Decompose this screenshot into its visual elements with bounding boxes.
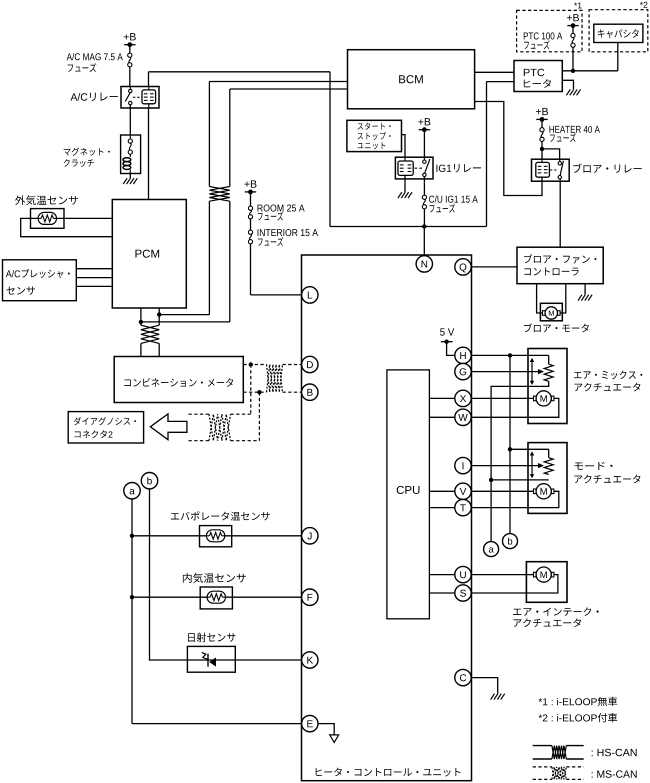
wire to terminal L [250, 244, 252, 295]
IG1 power rail wire [330, 226, 487, 228]
node +B (HEATER fuse supply) [536, 108, 548, 115]
diagnosis connector 2 (ダイアグノシス・コネクタ2) [68, 412, 143, 443]
terminal L [302, 287, 318, 303]
wires controller to blower motor [537, 284, 545, 313]
sensor: outside air temp (外気温センサ) [15, 195, 78, 205]
legend HS-CAN symbol [533, 745, 552, 747]
terminal W [455, 409, 471, 425]
wire [572, 47, 574, 71]
node +B (IG1 relay supply) [418, 118, 430, 125]
photodiode (sunload) [207, 654, 209, 667]
wire intake motor return to terminal S [471, 575, 558, 593]
wire [423, 130, 425, 158]
wires A/C pressure sensor to PCM [76, 268, 112, 270]
node b (left) [141, 473, 157, 489]
ground (magnet clutch) [129, 174, 131, 179]
magnet clutch (with thermal fuse and coil) [121, 135, 141, 174]
ground (terminal E, signal) [318, 724, 334, 735]
sensor: sunload (日射センサ) [188, 632, 235, 642]
dashed option box *2 (capacitor, i-ELOOP付) [589, 10, 648, 52]
wire blower relay coil to BCM [475, 102, 542, 196]
wire a to cabin sensor to terminal F [132, 596, 302, 598]
node +B (PTC fuse supply) [567, 14, 579, 21]
MS-CAN dashed pair to diagnosis connector [250, 365, 252, 415]
MS-CAN dashed pair meter to D/B [243, 364, 266, 366]
terminal I [455, 457, 471, 473]
blower motor (ブロア・モータ) [540, 303, 562, 321]
arrow to diagnosis connector 2 [150, 414, 187, 440]
node a (left) [124, 483, 140, 499]
terminal H [455, 347, 471, 363]
dashed option box *1 (PTC fuse, i-ELOOP无) [517, 10, 582, 51]
wire a to evaporator sensor to terminal J [132, 535, 302, 537]
wire mode motor return to terminal T [471, 491, 559, 507]
wire air mix motor return to terminal W [471, 398, 559, 417]
BCM [348, 50, 475, 109]
terminal C [455, 669, 471, 685]
terminal K [302, 652, 318, 668]
terminal F [302, 589, 318, 605]
twist symbol (MS-CAN, dashed) [267, 365, 283, 393]
wire mode pot return [491, 479, 549, 481]
wire to BCM CAN-L [141, 321, 230, 323]
wire + ground (terminal C) [471, 678, 498, 694]
wire BCM to PTC heater [475, 71, 514, 73]
terminal S [455, 585, 471, 601]
wire terminal Q to controller [471, 266, 517, 268]
wire [21, 218, 113, 236]
wire terminal G to air mix pot wiper [471, 371, 538, 373]
node +B (ROOM/INTERIOR fuse supply) [244, 180, 256, 187]
wires CPU to terminals [429, 397, 454, 399]
wire fuse to blower relay switch [542, 149, 560, 159]
sensor: A/C pressure (A/Cプレッシャ・センサ) [3, 260, 77, 301]
terminal T [455, 499, 471, 515]
combination meter (コンビネーション・メータ) [114, 357, 243, 403]
heater control unit box (ヒータ・コントロール・ユニット) [302, 255, 472, 781]
terminal X [455, 390, 471, 406]
terminal V [455, 483, 471, 499]
wire to BCM CAN-H [159, 314, 209, 316]
fuse HEATER 40 A [540, 128, 544, 132]
fuse C/U IG1 15 A [422, 195, 426, 199]
wire [250, 192, 252, 206]
wire [129, 45, 131, 53]
terminal J [302, 528, 318, 544]
terminal U [455, 566, 471, 582]
mode actuator (モード・アクチュエータ) [528, 443, 567, 514]
wire air mix pot return [491, 381, 549, 541]
air mix actuator (エア・ミックス・アクチュエータ) [528, 349, 567, 424]
node a (sensor common) [484, 542, 499, 557]
node 5 V [440, 328, 454, 335]
wire + ground (IG1 relay coil) [404, 175, 406, 192]
PCM [112, 200, 186, 309]
relay blower (ブロア・リレー) [532, 159, 570, 181]
wire + ground (PTC heater) [562, 80, 573, 89]
wire [250, 219, 252, 230]
wire a to terminal E [132, 723, 302, 725]
wire [423, 209, 425, 227]
CPU [387, 370, 430, 619]
wire A/C relay coil to IG1 rail [148, 72, 150, 87]
wire [541, 141, 543, 159]
wire [129, 67, 131, 87]
wire terminal I to mode pot wiper [471, 465, 538, 467]
terminal D [302, 356, 318, 372]
node b (sensor supply) [503, 534, 518, 549]
wire start-stop unit to IG1 relay coil [402, 135, 406, 158]
wire a down [131, 499, 133, 724]
wire terminal V to mode motor [471, 490, 533, 492]
twist symbol (diagnosis pair, dashed) [209, 414, 231, 441]
twist symbol (meter pair) [141, 325, 159, 343]
fuse ROOM 25 A [248, 206, 252, 210]
legend MS-CAN symbol [533, 766, 552, 768]
wire terminal X to air mix motor [471, 397, 533, 399]
HS-CAN twisted pair PCM to combination meter [140, 308, 142, 325]
start-stop unit (スタート・ストップ・ユニット) [347, 120, 402, 151]
terminal E [302, 715, 318, 731]
node +B (A/C MAG fuse supply) [124, 33, 136, 40]
wire 5V to terminal H [447, 342, 455, 356]
wire [572, 26, 574, 34]
wire to terminal b [509, 449, 511, 534]
sensor: evaporator temp (エバポレータ温センサ) [171, 511, 270, 520]
legend note *1 [538, 697, 617, 706]
fuse A/C MAG 7.5 A [128, 53, 132, 57]
fuse PTC 100 A [571, 33, 575, 37]
legend note *2 [538, 713, 617, 722]
wire coil to PCM [148, 108, 150, 200]
terminal G [455, 363, 471, 379]
wire b down to sunload sensor [150, 489, 302, 660]
wire terminal H to actuator sensors (5V supply) [471, 354, 549, 356]
blower fan controller (ブロア・ファン・コントローラ) [517, 247, 603, 284]
wire switch to magnet clutch [129, 105, 131, 135]
wire blower relay switch to fan controller [559, 179, 561, 247]
terminal Q [455, 259, 471, 275]
wire capacitor to PTC heater [617, 43, 619, 71]
relay A/C (A/C relay) [121, 87, 159, 109]
wire [541, 119, 543, 127]
air intake actuator (エア・インテーク・アクチュエータ) [526, 562, 567, 603]
relay IG1 [395, 157, 433, 179]
terminal N [416, 256, 432, 272]
capacitor unit (キャパシタ) [594, 24, 643, 42]
wire IG1 relay switch to fuse [423, 177, 425, 196]
terminal B [302, 384, 318, 400]
fuse INTERIOR 15 A [248, 230, 252, 234]
wire [57, 217, 113, 219]
wire + ground (controller) [584, 284, 586, 295]
twist symbol (BCM pair) [209, 187, 229, 202]
wire terminal U to intake motor [471, 574, 533, 576]
sensor: cabin air temp (内気温センサ) [183, 573, 246, 583]
PTC heater (PTCヒータ) [514, 61, 562, 92]
wire to terminal N [423, 227, 425, 256]
